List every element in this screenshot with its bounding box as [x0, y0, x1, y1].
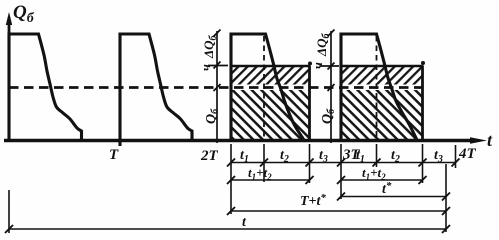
svg-text:ч: ч: [198, 64, 213, 71]
svg-text:4T: 4T: [458, 146, 477, 162]
svg-text:T: T: [109, 147, 119, 163]
svg-text:ч: ч: [310, 62, 325, 69]
svg-text:2T: 2T: [200, 148, 219, 164]
